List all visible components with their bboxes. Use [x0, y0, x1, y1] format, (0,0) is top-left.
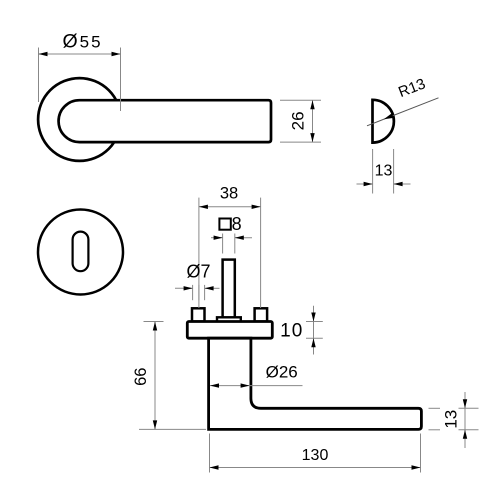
- dimension 10 arrow top: [311, 313, 315, 322]
- dimension 130 arrow right: [412, 465, 421, 469]
- dimension Ø55 arrow left: [39, 52, 48, 56]
- dimension square-8 arrow left: [214, 236, 223, 240]
- dimension square-8 line right: [235, 237, 252, 239]
- svg-text:Ø26: Ø26: [266, 362, 298, 381]
- svg-text:130: 130: [302, 447, 329, 464]
- dimension 130 text: [302, 447, 329, 464]
- lever handle side view (neck and grip): [209, 338, 422, 429]
- svg-text:8: 8: [232, 214, 242, 234]
- dimension 13 arrow left: [364, 182, 373, 186]
- dimension 13 right extension dash bottom right: [459, 429, 479, 431]
- dimension Ø7 line right: [205, 287, 220, 289]
- dimension 13 right extension dash bottom left: [429, 429, 441, 431]
- dimension 13 right extension dash top right: [459, 407, 479, 409]
- dimension 66 arrow bottom: [153, 420, 157, 429]
- dimension 10 line: [313, 306, 315, 355]
- svg-text:66: 66: [132, 368, 150, 386]
- dimension 26 extension line top: [280, 99, 321, 101]
- screw post right: [255, 308, 268, 321]
- spindle (square bar): [223, 260, 235, 318]
- dimension 13 right text: [442, 410, 461, 429]
- dimension Ø55 text: [62, 31, 102, 53]
- dimension Ø7 text: [186, 262, 210, 282]
- dimension 10 extension dash bottom: [306, 337, 323, 339]
- dimension Ø55 extension line right: [120, 48, 122, 112]
- dimension 130 arrow left: [210, 465, 219, 469]
- leader R13 line: [367, 98, 439, 126]
- dimension square-8 arrow right: [235, 236, 244, 240]
- dimension 38 extension line left: [198, 198, 200, 308]
- dimension 13 line right: [394, 183, 411, 185]
- dimension 13 right line: [464, 392, 466, 448]
- dimension 13 line left: [357, 183, 373, 185]
- dimension 10 text: [280, 320, 303, 341]
- dimension Ø7 arrow right: [205, 286, 214, 290]
- dimension 10 extension dash top: [306, 321, 323, 323]
- dimension 13 right arrow top: [463, 399, 467, 408]
- dimension square-8 text: [232, 214, 242, 234]
- dimension 130 extension line left: [209, 434, 211, 473]
- dimension 26 extension line bottom: [280, 141, 321, 143]
- dimension 13 extension line right: [393, 149, 395, 194]
- dimension square-8 line left: [211, 237, 223, 239]
- dimension 66 arrow top: [153, 322, 157, 331]
- spindle collar: [217, 317, 241, 322]
- screw post left: [192, 308, 205, 321]
- grip cross-section half-round R13: [373, 100, 394, 143]
- dimension square-8 extension line right: [234, 234, 236, 254]
- dimension square-8 symbol: [219, 219, 230, 230]
- dimension 130 line: [210, 467, 421, 469]
- dimension 38 extension line right: [260, 198, 262, 308]
- svg-text:Ø7: Ø7: [186, 262, 210, 282]
- rosette (round rose) top-left view: [38, 78, 121, 161]
- dimension Ø7 extension line right: [204, 285, 206, 300]
- backplate: [187, 322, 272, 339]
- dimension Ø55 line: [39, 53, 121, 55]
- escutcheon rose: [38, 210, 123, 295]
- dimension 13 arrow right: [394, 182, 403, 186]
- dimension Ø55 arrow right: [112, 52, 121, 56]
- dimension 38 arrow left: [199, 205, 208, 209]
- dimension 38 text: [220, 185, 238, 203]
- dimension 38 line: [199, 206, 261, 208]
- svg-text:13: 13: [375, 162, 393, 179]
- dimension 66 extension line bottom: [139, 428, 206, 430]
- dimension 38 arrow right: [252, 205, 261, 209]
- dimension 26 arrow bottom: [310, 133, 314, 142]
- dimension Ø26 arrow right: [241, 383, 250, 387]
- dimension 66 line: [154, 322, 156, 430]
- svg-text:13: 13: [442, 410, 461, 429]
- leader R13 arrow: [384, 113, 394, 119]
- dimension 130 extension line right: [420, 434, 422, 473]
- dimension Ø7 centerline: [198, 285, 200, 300]
- dimension 13 extension line left: [372, 149, 374, 194]
- dimension 26 arrow top: [310, 100, 314, 109]
- dimension 13 right extension dash top left: [429, 407, 441, 409]
- dimension 10 arrow bottom: [311, 338, 315, 347]
- svg-text:10: 10: [280, 320, 303, 341]
- dimension 13 text: [375, 162, 393, 179]
- dimension Ø7 line left: [175, 287, 193, 289]
- svg-text:26: 26: [289, 111, 308, 130]
- dimension 26 line: [312, 100, 314, 142]
- dimension 13 right arrow bottom: [463, 430, 467, 439]
- lever grip top-left view: [59, 100, 271, 142]
- dimension 26 text: [289, 111, 308, 130]
- dimension Ø26 arrow left: [210, 383, 219, 387]
- svg-text:38: 38: [220, 185, 238, 203]
- dimension Ø7 arrow left: [184, 286, 193, 290]
- dimension square-8 extension line left: [222, 234, 224, 254]
- svg-text:Ø55: Ø55: [62, 31, 102, 53]
- dimension 66 extension dash top: [144, 321, 164, 323]
- dimension Ø26 text: [266, 362, 298, 381]
- dimension Ø26 line: [210, 385, 303, 387]
- dimension 66 text: [132, 368, 150, 386]
- leader R13 text: [396, 75, 428, 101]
- dimension Ø7 extension line left: [192, 285, 194, 300]
- dimension Ø55 extension line left: [38, 48, 40, 103]
- keyhole slot: [73, 232, 89, 272]
